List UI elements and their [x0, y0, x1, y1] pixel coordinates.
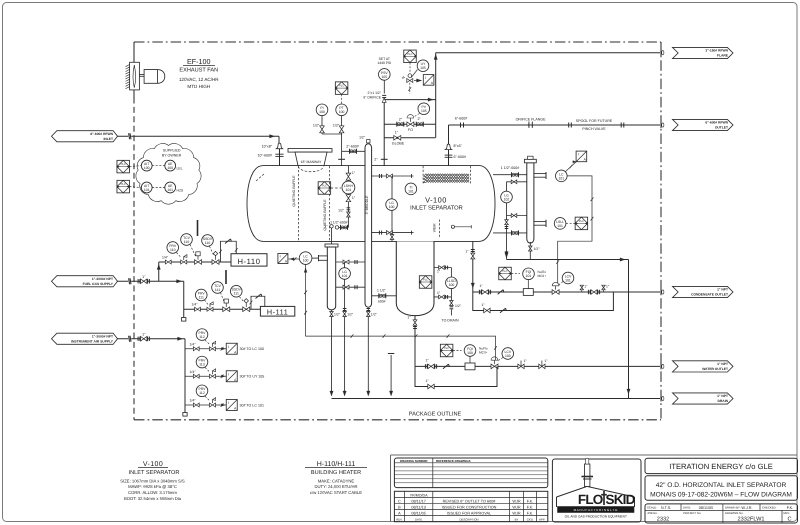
svg-text:120VAC, 12 AC/HR: 120VAC, 12 AC/HR: [179, 77, 219, 82]
svg-text:1440 PSI: 1440 PSI: [377, 61, 391, 65]
svg-text:101: 101: [342, 274, 348, 278]
wire inlet: [118, 135, 129, 137]
svg-text:REV.: REV.: [784, 511, 790, 515]
svg-text:FO: FO: [408, 128, 413, 132]
svg-text:YR/MO/DA: YR/MO/DA: [410, 493, 428, 497]
wire fuel gas entry: [118, 280, 129, 282]
svg-text:42" O.D. HORIZONTAL INLET: 42" O.D. HORIZONTAL INLET SEPARATOR: [656, 482, 787, 489]
svg-text:6"-600#: 6"-600#: [454, 155, 466, 159]
svg-text:PLC: PLC: [579, 220, 584, 223]
svg-text:105: 105: [420, 66, 426, 70]
water valves: [518, 364, 524, 369]
svg-text:CK'D: CK'D: [527, 517, 533, 521]
svg-text:BY OWNER: BY OWNER: [162, 154, 182, 158]
LLSD 100 on boot: [419, 276, 432, 289]
svg-text:2"x1 1/2": 2"x1 1/2": [367, 91, 381, 95]
svg-text:MAKE: CATADYNE: MAKE: CATADYNE: [318, 478, 355, 483]
svg-text:101: 101: [408, 189, 414, 193]
svg-text:PACKAGE OUTLINE: PACKAGE OUTLINE: [409, 411, 462, 417]
svg-text:DATE:: DATE:: [683, 506, 691, 510]
TCV 111: [212, 282, 224, 294]
svg-text:PLC: PLC: [121, 183, 126, 186]
condensate crossing: [660, 289, 662, 295]
svg-text:ORIFICE FLANGE: ORIFICE FLANGE: [516, 118, 547, 122]
flo-skid stack: [585, 464, 590, 487]
svg-text:FLARE: FLARE: [717, 54, 729, 58]
svg-text:FUEL GAS SUPPLY: FUEL GAS SUPPLY: [83, 282, 114, 286]
SSDV 111: [230, 285, 242, 297]
wire flare header: [436, 52, 660, 54]
flare crossing: [660, 50, 662, 56]
svg-text:C: C: [398, 500, 401, 504]
svg-text:A: A: [398, 511, 401, 515]
LSLL 101: [534, 221, 546, 223]
TCV 110: [181, 234, 193, 246]
svg-text:DRAWING No.: DRAWING No.: [725, 511, 744, 515]
svg-text:INLET SEPARATOR: INLET SEPARATOR: [410, 204, 463, 211]
svg-text:1" NPT: 1" NPT: [717, 362, 728, 366]
manway 18in: [288, 149, 332, 153]
PRV 110: [167, 242, 179, 254]
wire water bypass: [415, 366, 497, 386]
svg-text:SPOOL FOR FUTURE: SPOOL FOR FUTURE: [576, 119, 613, 123]
LCV 100: [491, 364, 498, 369]
svg-text:INLET: INLET: [103, 137, 113, 141]
svg-text:1/4": 1/4": [162, 255, 169, 259]
flo-skid house: [557, 486, 635, 497]
svg-text:DUTY: 24,000 BTU/HR: DUTY: 24,000 BTU/HR: [314, 484, 357, 489]
outlet pennant: [673, 119, 734, 130]
FLO-SKID logo block: [552, 459, 641, 522]
LSHH 101 stack: [347, 166, 349, 228]
svg-text:REFERENCE DRAWINGS: REFERENCE DRAWINGS: [436, 459, 471, 463]
svg-text:08/11/05: 08/11/05: [699, 506, 714, 510]
LC 100: [289, 258, 300, 260]
svg-text:REVISED 6" OUTLET TO 600#: REVISED 6" OUTLET TO 600#: [443, 500, 497, 504]
svg-text:F.K.: F.K.: [527, 511, 534, 515]
svg-text:101: 101: [558, 176, 564, 180]
svg-text:SUPPLIED: SUPPLIED: [163, 149, 181, 153]
svg-text:BY: BY: [515, 517, 519, 521]
svg-text:1/2": 1/2": [313, 124, 320, 128]
vessel condensate nozzle: [472, 241, 474, 292]
LSHH spool: [339, 226, 349, 228]
wire IA drop: [184, 339, 186, 413]
svg-text:DATE: DATE: [415, 517, 422, 521]
svg-text:DESCRIPTION: DESCRIPTION: [459, 517, 478, 521]
package outline (dash-dot building boundary): [134, 41, 661, 43]
svg-text:REV.: REV.: [396, 517, 402, 521]
H-110 branch: [159, 261, 234, 263]
svg-text:105: 105: [381, 75, 387, 79]
svg-text:CORR. ALLOW: 3.175mm: CORR. ALLOW: 3.175mm: [128, 490, 177, 495]
PRV 111: [195, 289, 207, 301]
svg-text:600#: 600#: [378, 300, 386, 304]
LG 101 gauge glass: [336, 261, 365, 263]
svg-text:30# TO UY 105: 30# TO UY 105: [240, 375, 265, 379]
svg-text:PLC: PLC: [444, 347, 449, 350]
vessel V-100 inlet separator: [247, 166, 495, 242]
svg-text:B: B: [398, 506, 401, 510]
svg-text:I: I: [228, 372, 229, 376]
svg-text:1/4": 1/4": [190, 370, 197, 374]
svg-text:30# TO LC 101: 30# TO LC 101: [240, 403, 264, 407]
svg-text:OIL AND GAS PRODUCTION EQU: OIL AND GAS PRODUCTION EQUIPMENT: [565, 515, 627, 519]
svg-text:H-110/H-111: H-110/H-111: [317, 460, 356, 468]
UY 105 group: [404, 50, 417, 63]
wire drain drop: [628, 260, 630, 399]
wire boot bottom drain: [414, 316, 416, 367]
svg-text:6"-600# RFWN: 6"-600# RFWN: [705, 121, 728, 125]
svg-text:102: 102: [504, 197, 510, 201]
svg-text:1" NPT: 1" NPT: [717, 288, 728, 292]
svg-text:INLET SEPARATOR: INLET SEPARATOR: [129, 470, 180, 476]
svg-text:100: 100: [144, 166, 150, 170]
flare pennant: [673, 47, 734, 58]
svg-text:1/4": 1/4": [190, 342, 197, 346]
svg-text:8"-600# RFWN: 8"-600# RFWN: [90, 132, 113, 136]
LG 102 gauge glass: [507, 181, 527, 183]
svg-text:100: 100: [339, 110, 345, 114]
svg-text:100: 100: [303, 259, 309, 263]
svg-text:100: 100: [167, 166, 173, 170]
svg-text:WJR: WJR: [512, 500, 520, 504]
vapor outlet riser 8x6: [448, 125, 450, 166]
TI 101: [405, 183, 417, 195]
fuel gas pennant: [52, 276, 118, 287]
svg-text:MAWP: 9928 kPa @ 38°C: MAWP: 9928 kPa @ 38°C: [128, 484, 177, 489]
svg-text:105: 105: [421, 109, 427, 113]
LG102 drain header to drain drop: [507, 259, 629, 261]
svg-text:1/2": 1/2": [455, 304, 462, 308]
reference drawings table: [394, 458, 547, 488]
PI 100: [316, 104, 328, 116]
svg-text:F.K.: F.K.: [527, 506, 534, 510]
upper spool 1.5-600 vessel to right bridle: [493, 174, 527, 176]
svg-text:BUILDING HEATER: BUILDING HEATER: [311, 470, 361, 476]
wire water line: [415, 365, 660, 367]
condensate pennant: [673, 286, 734, 297]
svg-text:2332FLW1: 2332FLW1: [738, 517, 765, 523]
svg-text:101: 101: [526, 274, 532, 278]
svg-text:111: 111: [215, 288, 220, 292]
svg-text:PLC: PLC: [121, 163, 126, 166]
reducer bell 10x8: [276, 143, 282, 149]
heater H-111: [260, 306, 294, 316]
svg-text:I: I: [280, 255, 281, 259]
boot vessel: [396, 241, 434, 315]
wire outlet header 6in-600: [449, 124, 661, 126]
IA branch 30# TO LC 101: [185, 404, 226, 406]
svg-text:N.T.S.: N.T.S.: [661, 506, 671, 510]
manufacturing banner: [558, 507, 635, 513]
svg-text:V-100: V-100: [143, 461, 163, 468]
wire PSV riser: [383, 100, 385, 166]
svg-text:1/2": 1/2": [338, 208, 345, 212]
svg-text:I: I: [425, 76, 426, 80]
svg-text:100: 100: [319, 110, 325, 114]
svg-text:SIZE: 1067mm DIA x 3048mm: SIZE: 1067mm DIA x 3048mm S/S: [120, 478, 185, 483]
svg-text:2332: 2332: [657, 516, 669, 522]
condensate valves: [581, 285, 583, 292]
title strip divider: [391, 454, 798, 456]
revision table: [394, 491, 547, 521]
svg-text:H-110: H-110: [237, 257, 260, 266]
svg-text:MTD HIGH: MTD HIGH: [187, 84, 210, 89]
analyzer cloud supplied by owner: [136, 144, 201, 205]
water crossing: [660, 363, 662, 369]
svg-text:ISSUED FOR CONSTRUCTION: ISSUED FOR CONSTRUCTION: [442, 506, 497, 510]
inlet pennant 8in-600 RFWN: [52, 131, 118, 142]
wire LG101 drain: [344, 287, 346, 394]
wire bridle drain: [367, 309, 369, 395]
drain crossing: [660, 396, 662, 402]
H-111 branch: [184, 308, 262, 310]
wire condensate bypass: [473, 292, 614, 311]
svg-text:QUIETING BAFFLE: QUIETING BAFFLE: [292, 175, 296, 207]
svg-text:101: 101: [565, 278, 571, 282]
svg-text:M A N U F A C T U R I N G L: M A N U F A C T U R I N G L T D.: [574, 508, 619, 512]
svg-text:WEIR: WEIR: [432, 223, 436, 232]
svg-text:H2S: H2S: [177, 189, 184, 193]
svg-text:EF-100: EF-100: [187, 57, 211, 66]
lower spool: [493, 232, 527, 234]
svg-text:DRAIN: DRAIN: [718, 399, 729, 403]
PLC link above PT: [335, 82, 348, 95]
svg-text:INSTRUMENT AIR SUPPLY: INSTRUMENT AIR SUPPLY: [71, 340, 114, 344]
title box info grid: [645, 504, 798, 523]
svg-text:110: 110: [170, 248, 176, 252]
drain pennant: [673, 393, 734, 404]
svg-text:30# TO LC 100: 30# TO LC 100: [240, 347, 264, 351]
svg-text:WJR: WJR: [512, 506, 520, 510]
svg-text:113: 113: [199, 362, 205, 366]
svg-text:SKID: SKID: [606, 492, 636, 507]
svg-text:08/11/17: 08/11/17: [411, 500, 426, 504]
wire fuel drop to H-111: [183, 281, 185, 317]
LSHH 101: [342, 181, 355, 194]
svg-text:111: 111: [199, 295, 204, 299]
svg-text:PINCH VALVE: PINCH VALVE: [582, 127, 606, 131]
LG 100 gauge glass: [372, 175, 414, 177]
svg-text:PLC: PLC: [502, 270, 507, 273]
svg-text:PLC: PLC: [339, 85, 344, 88]
svg-text:101: 101: [167, 188, 173, 192]
svg-text:1"-3000# NPT: 1"-3000# NPT: [92, 335, 113, 339]
IA branch 30# TO LC 100: [185, 348, 226, 350]
LC 101: [534, 173, 546, 175]
bridle to boot spool 600#: [372, 295, 397, 297]
right bridle column: [527, 163, 534, 243]
SSDV 110: [202, 235, 214, 247]
svg-text:100: 100: [449, 283, 455, 287]
svg-text:3" BRIDDLE: 3" BRIDDLE: [365, 195, 369, 214]
vent funnel: [390, 355, 392, 394]
svg-text:110: 110: [184, 240, 190, 244]
svg-text:112: 112: [199, 335, 205, 339]
svg-text:OUTLET: OUTLET: [715, 126, 728, 130]
svg-text:I: I: [578, 153, 579, 157]
svg-text:JOB No.: JOB No.: [647, 511, 658, 515]
instrument air pennant: [52, 333, 118, 344]
svg-text:1"-3000# NPT: 1"-3000# NPT: [92, 277, 113, 281]
svg-text:1/2": 1/2": [334, 313, 341, 317]
svg-text:BOOT: 32.54mm x 508mm Dia: BOOT: 32.54mm x 508mm Dia: [124, 496, 182, 501]
AIT 101 / AE 101: [141, 182, 152, 193]
svg-text:08/11/05: 08/11/05: [411, 511, 426, 515]
svg-text:2"-600#: 2"-600#: [346, 144, 358, 148]
solenoid 3-way: [407, 79, 413, 83]
svg-text:V-100: V-100: [425, 196, 447, 205]
svg-text:1/2": 1/2": [534, 247, 541, 251]
svg-text:1 1/2"-600#: 1 1/2"-600#: [501, 166, 519, 170]
svg-text:EXHAUST FAN: EXHAUST FAN: [179, 68, 218, 74]
water pennant: [673, 361, 734, 372]
title box project: [645, 476, 798, 501]
svg-text:W.J.R.: W.J.R.: [741, 506, 752, 510]
LC100 signal up arrow: [304, 268, 307, 272]
svg-text:I: I: [228, 401, 229, 405]
svg-text:100: 100: [467, 351, 473, 355]
svg-text:110: 110: [205, 241, 211, 245]
svg-text:PLC: PLC: [407, 53, 412, 56]
svg-text:9" ORIFICE: 9" ORIFICE: [363, 95, 382, 99]
svg-text:ISSUED FOR APPROVAL: ISSUED FOR APPROVAL: [447, 511, 491, 515]
svg-text:MONAIS 09-17-082-20W6M – FL: MONAIS 09-17-082-20W6M – FLOW DIAGRAM: [650, 492, 792, 499]
LC 100 displacer chamber: [331, 228, 333, 244]
svg-text:DRAWING NUMBER: DRAWING NUMBER: [400, 459, 428, 463]
svg-text:C: C: [787, 517, 791, 523]
svg-text:LEL: LEL: [177, 167, 183, 171]
wire condensate line: [473, 291, 660, 293]
svg-text:ITERATION ENERGY c/o GLE: ITERATION ENERGY c/o GLE: [669, 462, 773, 471]
svg-text:6"-600#: 6"-600#: [455, 117, 467, 121]
svg-text:c/w 120VAC START CABLE: c/w 120VAC START CABLE: [310, 490, 362, 495]
svg-text:PLC: PLC: [423, 279, 428, 282]
svg-text:I: I: [228, 345, 229, 349]
wire riser to H-110: [158, 262, 160, 281]
globe bypass 1in: [384, 137, 435, 139]
svg-text:WJR: WJR: [512, 511, 520, 515]
IA branch 30# TO UY 105: [185, 375, 226, 377]
LCV 101: [552, 290, 559, 295]
svg-text:101: 101: [557, 224, 563, 228]
svg-text:1/2": 1/2": [347, 313, 354, 317]
svg-text:101: 101: [346, 188, 352, 192]
weir: [438, 220, 440, 238]
PLC squares at wall: [117, 160, 130, 173]
wire PSV discharge to flare riser: [384, 99, 436, 101]
svg-text:111: 111: [234, 292, 239, 296]
svg-text:F.K.: F.K.: [787, 506, 794, 510]
exhaust fan EF-100: [126, 65, 130, 67]
svg-text:1/2": 1/2": [371, 313, 378, 317]
svg-text:100: 100: [505, 354, 511, 358]
svg-text:10"-600#: 10"-600#: [258, 154, 272, 158]
svg-text:DRAWN BY:: DRAWN BY:: [725, 506, 741, 510]
title box company: [645, 458, 798, 473]
svg-text:1/4": 1/4": [192, 303, 199, 307]
svg-text:8"x6": 8"x6": [454, 144, 463, 148]
wire IA entry: [118, 338, 129, 340]
svg-text:FLO: FLO: [578, 492, 603, 507]
svg-text:TO DRAIN: TO DRAIN: [441, 319, 459, 323]
svg-text:SCALE:: SCALE:: [647, 506, 657, 510]
PT 100: [336, 104, 348, 116]
wire flare riser: [435, 53, 437, 138]
svg-text:CONDENSATE OUTLET: CONDENSATE OUTLET: [691, 293, 728, 297]
svg-text:100: 100: [389, 205, 395, 209]
wire LC100 signal to LCV100: [306, 264, 496, 360]
svg-text:PROJECT No.: PROJECT No.: [683, 511, 701, 515]
svg-text:APP.: APP.: [539, 517, 545, 521]
wire drain header: [332, 398, 661, 400]
svg-text:1/2": 1/2": [359, 135, 366, 139]
mist eliminator pad: [422, 166, 424, 184]
svg-text:H-111: H-111: [267, 308, 289, 317]
3in bridle column: [365, 144, 372, 308]
wire chamber drain: [331, 310, 333, 394]
svg-text:10"x8": 10"x8": [262, 144, 273, 148]
wire H111 bypass loop: [251, 296, 265, 309]
svg-text:1 1/2"-600#: 1 1/2"-600#: [330, 220, 348, 224]
svg-text:CHECKED:: CHECKED:: [762, 506, 777, 510]
svg-text:1 1/2": 1 1/2": [377, 288, 387, 292]
PV 105 control line: [384, 123, 435, 125]
wire LC101 to LCV101 signal: [558, 176, 592, 283]
FQI 101 meter: [499, 267, 512, 280]
svg-text:101: 101: [144, 188, 150, 192]
AIT 100 / AE 100: [141, 160, 152, 171]
svg-text:08/11/13: 08/11/13: [411, 506, 426, 510]
svg-text:1" NPT: 1" NPT: [717, 394, 728, 398]
svg-text:SET AT: SET AT: [379, 57, 390, 61]
svg-text:WATER OUTLET: WATER OUTLET: [702, 367, 728, 371]
heater H-110: [231, 254, 267, 266]
svg-text:MCII+: MCII+: [538, 274, 547, 278]
bridle bottom drain: [529, 242, 531, 260]
svg-text:3"-150# RFWN: 3"-150# RFWN: [705, 49, 728, 53]
svg-text:GLOBE: GLOBE: [392, 141, 405, 145]
svg-text:F.K.: F.K.: [527, 500, 534, 504]
svg-text:18" MANWAY: 18" MANWAY: [301, 160, 323, 164]
svg-text:PLC: PLC: [322, 185, 327, 188]
outlet crossing: [660, 122, 662, 128]
svg-text:112: 112: [199, 391, 205, 395]
svg-text:1/4": 1/4": [190, 399, 197, 403]
FQI 100 meter: [440, 344, 453, 357]
svg-text:MCII+: MCII+: [479, 350, 488, 354]
wire H110 bypass loop: [221, 241, 237, 262]
quieting baffles: [298, 166, 300, 241]
